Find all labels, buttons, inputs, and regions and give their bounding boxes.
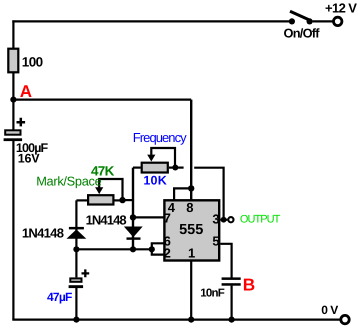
svg-text:555: 555 — [179, 222, 203, 238]
svg-text:On/Off: On/Off — [284, 26, 321, 41]
svg-text:5: 5 — [212, 234, 219, 249]
svg-text:1N4148: 1N4148 — [22, 226, 64, 241]
svg-text:2: 2 — [164, 245, 171, 260]
svg-text:1N4148: 1N4148 — [86, 213, 127, 228]
svg-text:Mark/Space: Mark/Space — [36, 174, 101, 189]
svg-text:OUTPUT: OUTPUT — [240, 214, 281, 226]
svg-text:+12 V: +12 V — [325, 0, 357, 15]
svg-text:3: 3 — [212, 212, 219, 227]
svg-text:8: 8 — [186, 200, 193, 215]
svg-text:16V: 16V — [18, 151, 41, 165]
svg-text:47µF: 47µF — [47, 290, 72, 304]
svg-text:100: 100 — [22, 55, 43, 70]
svg-text:A: A — [20, 82, 32, 101]
svg-text:B: B — [243, 274, 255, 294]
svg-text:1: 1 — [188, 245, 195, 260]
svg-text:0 V: 0 V — [321, 303, 338, 317]
svg-text:10K: 10K — [143, 174, 167, 188]
svg-text:10nF: 10nF — [200, 288, 225, 300]
svg-text:7: 7 — [164, 210, 171, 225]
svg-text:Frequency: Frequency — [133, 130, 187, 145]
